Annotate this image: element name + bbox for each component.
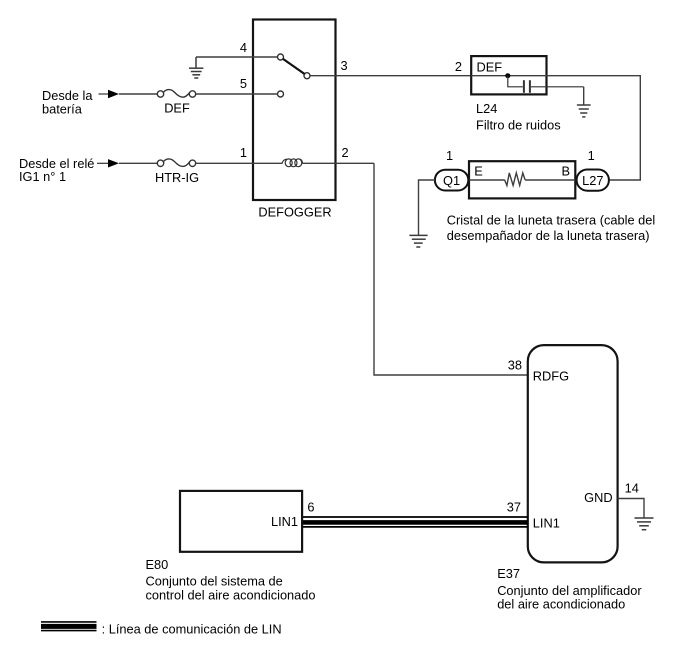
relay U1 DEFOGGER box	[253, 20, 336, 201]
svg-text:: Línea de comunicación de LIN: : Línea de comunicación de LIN	[102, 622, 282, 637]
amplifier E37 box	[528, 345, 618, 562]
svg-text:control del aire acondicionado: control del aire acondicionado	[146, 587, 316, 602]
svg-text:desempañador de la luneta tras: desempañador de la luneta trasera)	[447, 228, 650, 243]
fuse HTR-IG	[157, 159, 195, 167]
wire: fuse DEF to relay pin 5	[196, 93, 278, 95]
control unit E80 box	[180, 491, 302, 552]
legend LIN line sample	[41, 622, 97, 631]
wire through element (left)	[469, 179, 505, 181]
fuse DEF	[157, 90, 195, 98]
svg-text:DEFOGGER: DEFOGGER	[258, 205, 331, 220]
svg-text:2: 2	[342, 145, 349, 160]
LIN bus line E80 to E37	[302, 517, 528, 527]
svg-text:GND: GND	[584, 490, 612, 505]
svg-text:RDFG: RDFG	[533, 368, 569, 383]
svg-text:Q1: Q1	[443, 173, 460, 188]
svg-text:14: 14	[625, 480, 639, 495]
ground (Q1)	[409, 235, 427, 247]
wire: capacitor to ground	[583, 87, 585, 105]
svg-text:1: 1	[446, 148, 453, 163]
relay coil L	[282, 159, 303, 167]
wire: fuse HTR-IG to relay coil	[196, 162, 283, 164]
wire: arrow to fuse HTR-IG	[119, 162, 157, 164]
svg-text:1: 1	[240, 145, 247, 160]
svg-text:Filtro de ruidos: Filtro de ruidos	[476, 117, 561, 132]
svg-text:B: B	[562, 163, 571, 178]
wire: coil to relay pin 2	[302, 162, 374, 164]
wire through noise filter	[471, 75, 546, 77]
wire: arrow to fuse DEF	[119, 93, 157, 95]
wire: noise filter to connector L27	[547, 76, 641, 180]
wire: GND to ground	[618, 499, 644, 518]
svg-text:Conjunto del sistema de: Conjunto del sistema de	[146, 573, 283, 588]
svg-text:HTR-IG: HTR-IG	[155, 170, 199, 185]
svg-text:L27: L27	[582, 173, 603, 188]
svg-text:DEF: DEF	[477, 59, 503, 74]
noise filter L24 box	[471, 56, 546, 94]
svg-text:2: 2	[455, 59, 462, 74]
svg-text:E: E	[474, 163, 483, 178]
ground (E37 GND)	[635, 518, 654, 530]
defogger element resistor	[505, 173, 525, 186]
svg-text:E80: E80	[146, 557, 169, 572]
svg-text:5: 5	[240, 76, 247, 91]
svg-text:3: 3	[341, 58, 348, 73]
arrow from battery	[99, 93, 109, 95]
wire: ground to relay pin 4	[196, 56, 277, 58]
relay switch contact B	[304, 73, 310, 79]
svg-text:L24: L24	[476, 101, 497, 116]
ground (relay pin 4)	[189, 57, 203, 78]
rear window defogger element box	[469, 161, 575, 198]
svg-text:4: 4	[240, 40, 247, 55]
wire: relay pin 3 to noise filter	[310, 75, 471, 77]
connector Q1	[435, 170, 468, 191]
svg-text:LIN1: LIN1	[533, 516, 560, 531]
junction dot	[505, 73, 510, 78]
svg-text:del aire acondicionado: del aire acondicionado	[497, 597, 625, 612]
svg-text:Cristal de la luneta trasera (: Cristal de la luneta trasera (cable del	[447, 213, 655, 228]
svg-text:batería: batería	[42, 101, 83, 116]
ground (L24 noise filter)	[577, 105, 591, 117]
relay switch blade	[283, 59, 305, 74]
svg-text:LIN1: LIN1	[271, 514, 298, 529]
svg-text:6: 6	[307, 500, 314, 515]
svg-text:1: 1	[588, 148, 595, 163]
svg-text:DEF: DEF	[164, 101, 190, 116]
relay pin 5 contact	[278, 91, 284, 97]
arrow from IG1 relay	[97, 162, 109, 164]
svg-text:E37: E37	[497, 566, 520, 581]
wire: relay pin 2 to E37 RDFG	[374, 163, 528, 375]
wire through element (right)	[525, 179, 575, 181]
capacitor C (in L24)	[508, 76, 584, 93]
svg-text:37: 37	[507, 500, 521, 515]
relay switch contact A	[278, 54, 284, 60]
wire: Q1 to ground	[419, 180, 435, 235]
connector L27	[577, 170, 609, 191]
svg-text:38: 38	[508, 358, 522, 373]
svg-text:IG1 n° 1: IG1 n° 1	[19, 169, 66, 184]
